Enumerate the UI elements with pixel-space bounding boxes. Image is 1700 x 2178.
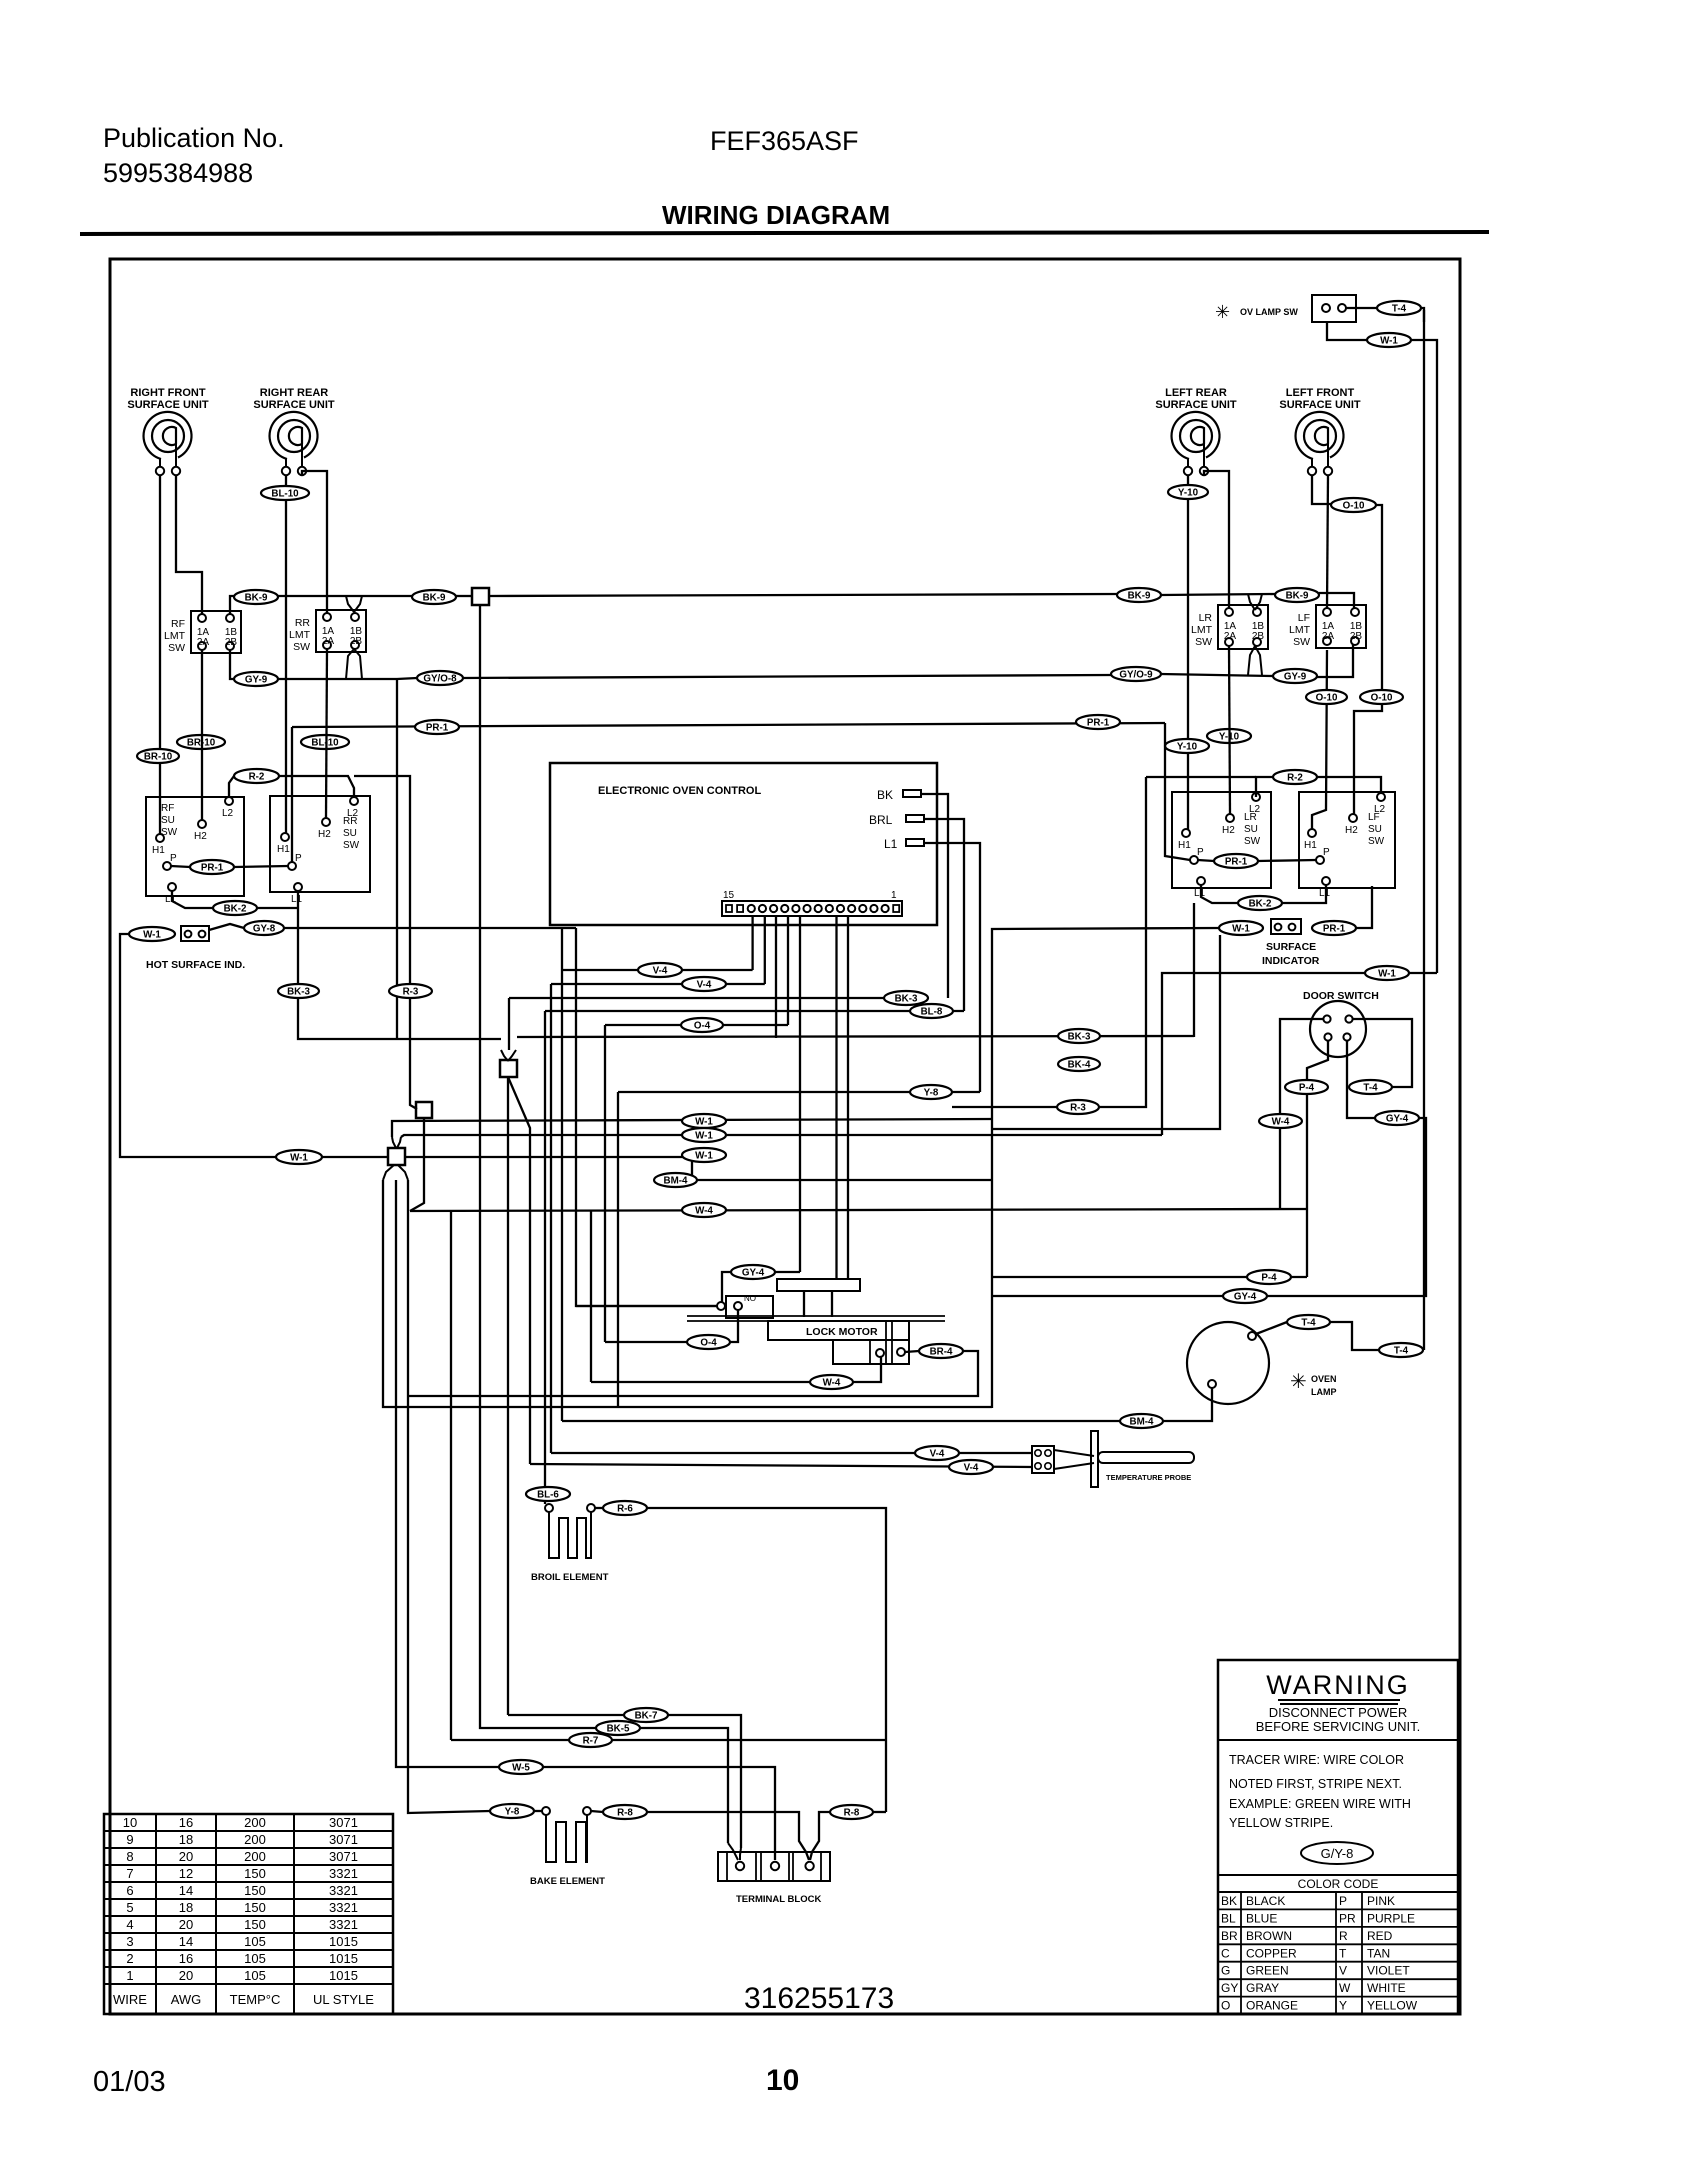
wire R-7 corner bbox=[612, 1739, 886, 1741]
svg-text:GY-8: GY-8 bbox=[253, 923, 276, 934]
wire V-4 probe line a bbox=[551, 1452, 1032, 1454]
label W-1 bbox=[682, 1148, 726, 1162]
svg-text:COLOR CODE: COLOR CODE bbox=[1298, 1877, 1379, 1891]
svg-text:316255173: 316255173 bbox=[744, 1982, 894, 2015]
svg-text:BROIL ELEMENT: BROIL ELEMENT bbox=[531, 1572, 609, 1583]
label W-4 bbox=[1259, 1114, 1302, 1128]
label BK-9 bbox=[1117, 588, 1161, 602]
label GY-8 bbox=[244, 921, 284, 935]
wire sq3 fork up left bbox=[392, 1137, 396, 1148]
wire leg A bbox=[383, 1180, 992, 1407]
wire RF coil right lead to RF LMT 1A bbox=[176, 475, 202, 614]
wire RF P to RR P bbox=[171, 866, 190, 867]
label GY-9 bbox=[234, 672, 278, 686]
wire RR L1 drop bbox=[297, 891, 299, 984]
svg-text:LMT: LMT bbox=[289, 629, 311, 641]
svg-text:8: 8 bbox=[126, 1849, 133, 1864]
svg-text:SU: SU bbox=[161, 815, 175, 826]
svg-text:RF: RF bbox=[161, 803, 174, 814]
svg-text:01/03: 01/03 bbox=[93, 2066, 166, 2098]
svg-text:W-1: W-1 bbox=[290, 1152, 308, 1163]
wire R-7 drop bbox=[450, 1210, 452, 1740]
svg-text:BLACK: BLACK bbox=[1246, 1894, 1285, 1908]
example oval G/Y-8 bbox=[1301, 1842, 1373, 1864]
wire BK-7 corner bbox=[668, 1715, 741, 1848]
wire BK-9 bus long bbox=[489, 594, 1117, 596]
svg-text:4: 4 bbox=[126, 1917, 133, 1932]
svg-text:GREEN: GREEN bbox=[1246, 1964, 1289, 1978]
wire LR LMT 2B fork left bbox=[1248, 646, 1255, 675]
right rear surface unit coil bbox=[270, 412, 318, 475]
label PR-1 bbox=[1312, 921, 1356, 935]
wire O-10 chain to LF H2 bbox=[1354, 505, 1382, 814]
label W-1 bbox=[1365, 966, 1409, 980]
svg-text:150: 150 bbox=[244, 1917, 266, 1932]
wire leg C Y-8 bbox=[408, 1180, 490, 1813]
svg-text:BK-3: BK-3 bbox=[287, 986, 310, 997]
wire RR LMT 1B fork right bbox=[354, 596, 362, 612]
label BM-4 bbox=[1120, 1414, 1163, 1428]
wire BK-3 door line bbox=[517, 1036, 1194, 1037]
svg-text:G/Y-8: G/Y-8 bbox=[1321, 1846, 1354, 1861]
svg-text:BK-9: BK-9 bbox=[1128, 590, 1151, 601]
svg-text:GY-4: GY-4 bbox=[1234, 1291, 1257, 1302]
wire LR LMT 1B fork right bbox=[1255, 594, 1262, 610]
wire W-1 mid west and 992 vertical bbox=[992, 928, 1219, 1408]
label GY-9 bbox=[1273, 669, 1317, 683]
svg-text:BM-4: BM-4 bbox=[664, 1175, 688, 1186]
junction square BK-9 bbox=[472, 588, 489, 605]
svg-text:R-3: R-3 bbox=[403, 986, 419, 997]
wire R-2 left riser bbox=[229, 776, 234, 797]
label Y-8 bbox=[910, 1085, 952, 1099]
svg-text:W-1: W-1 bbox=[1380, 335, 1398, 346]
svg-text:✳: ✳ bbox=[1290, 1371, 1307, 1393]
wire square1 fork left bbox=[501, 1050, 508, 1061]
wire strip wire 776 bbox=[775, 916, 777, 1038]
svg-text:Y-10: Y-10 bbox=[1177, 741, 1198, 752]
wire T-4 to vertical bbox=[1423, 1349, 1424, 1351]
svg-text:YELLOW: YELLOW bbox=[1367, 1999, 1418, 2013]
svg-text:2: 2 bbox=[126, 1951, 133, 1966]
junction square W-1 bbox=[388, 1148, 405, 1165]
wire R-7 line bbox=[451, 1739, 569, 1741]
svg-text:2B: 2B bbox=[225, 637, 238, 648]
svg-text:TRACER WIRE: WIRE COLOR: TRACER WIRE: WIRE COLOR bbox=[1229, 1753, 1404, 1767]
wire BK-2 to 298 riser bbox=[257, 907, 298, 909]
label BK-5 bbox=[596, 1721, 640, 1735]
svg-text:SURFACE UNIT: SURFACE UNIT bbox=[127, 399, 209, 411]
svg-text:105: 105 bbox=[244, 1951, 266, 1966]
label BR-10 bbox=[137, 749, 179, 763]
svg-text:BK-9: BK-9 bbox=[245, 592, 268, 603]
wire GY bus center bbox=[278, 678, 397, 680]
label GY-4 bbox=[1375, 1111, 1419, 1125]
wire left terminal fork r bbox=[740, 1848, 741, 1860]
svg-text:O-10: O-10 bbox=[1316, 692, 1338, 703]
wire LF coil right lead to LF LMT 1A bbox=[1327, 475, 1328, 608]
electronic oven control box bbox=[550, 763, 937, 925]
svg-text:LAMP: LAMP bbox=[1311, 1387, 1337, 1397]
svg-text:1: 1 bbox=[126, 1968, 133, 1983]
wire LR P to LF P b bbox=[1258, 860, 1316, 861]
svg-text:R-6: R-6 bbox=[617, 1503, 633, 1514]
wire P-4 line 1277 bbox=[992, 1276, 1307, 1278]
svg-text:BR-10: BR-10 bbox=[144, 751, 173, 762]
svg-text:3321: 3321 bbox=[329, 1917, 358, 1932]
svg-text:GY/O-9: GY/O-9 bbox=[1119, 669, 1153, 680]
wire RR LMT 2B fork right bbox=[354, 649, 362, 679]
label BL-6 bbox=[526, 1487, 570, 1501]
wire W-1 line b bbox=[401, 1135, 1162, 1137]
wire sq3 fork down left bbox=[383, 1165, 394, 1180]
label BR-4 bbox=[919, 1344, 963, 1358]
wire R-3 to R2 riser bbox=[1099, 777, 1146, 1107]
wire V-4 line a riser bbox=[561, 928, 563, 1421]
wire door BR drop bbox=[1347, 1041, 1375, 1118]
wire GY-O bus long bbox=[463, 675, 1111, 678]
svg-text:T-4: T-4 bbox=[1392, 303, 1407, 314]
svg-text:BRL: BRL bbox=[869, 813, 893, 827]
wire BK-9 bus center bbox=[278, 595, 412, 597]
svg-text:OV LAMP SW: OV LAMP SW bbox=[1240, 307, 1298, 317]
svg-text:7: 7 bbox=[126, 1866, 133, 1881]
wire PR-1 to RR P bbox=[234, 866, 288, 867]
wire motor to BR-4 bbox=[905, 1351, 919, 1352]
label BK-3 bbox=[1058, 1029, 1100, 1043]
label Y-10 bbox=[1165, 739, 1209, 753]
label O-10 bbox=[1360, 690, 1403, 704]
svg-text:H2: H2 bbox=[1222, 825, 1235, 836]
svg-text:OVEN: OVEN bbox=[1311, 1374, 1337, 1384]
wire BL-8 line bbox=[545, 1010, 964, 1012]
svg-text:V-4: V-4 bbox=[653, 965, 668, 976]
temperature probe connector bbox=[1032, 1446, 1054, 1473]
wire W-1 to junction3 bbox=[322, 1156, 388, 1158]
svg-text:BL-10: BL-10 bbox=[271, 488, 299, 499]
wire RR LMT 1B fork left bbox=[346, 596, 354, 612]
svg-text:2A: 2A bbox=[197, 637, 210, 648]
wire R-8a line bbox=[646, 1812, 809, 1860]
svg-text:RIGHT FRONT: RIGHT FRONT bbox=[130, 387, 205, 399]
svg-text:20: 20 bbox=[179, 1917, 193, 1932]
wire O-4 line bbox=[605, 1024, 788, 1026]
label GY/O-9 bbox=[1111, 667, 1161, 681]
svg-text:V-4: V-4 bbox=[964, 1462, 979, 1473]
svg-text:R-2: R-2 bbox=[1287, 772, 1303, 783]
bake element bbox=[542, 1807, 550, 1815]
svg-text:BL: BL bbox=[1221, 1911, 1236, 1925]
wire strip wire 753 bbox=[751, 916, 753, 970]
svg-text:LMT: LMT bbox=[1191, 624, 1213, 636]
wire V-4 probe line b bbox=[530, 1464, 1032, 1467]
wire LR P to LF P a bbox=[1198, 860, 1214, 861]
svg-text:V: V bbox=[1339, 1964, 1347, 1978]
wire BR-4 return bbox=[408, 1351, 978, 1396]
svg-text:SW: SW bbox=[168, 642, 185, 654]
svg-text:TEMP°C: TEMP°C bbox=[230, 1992, 281, 2007]
svg-text:W-1: W-1 bbox=[695, 1130, 713, 1141]
wire GY-O bus right bbox=[1161, 674, 1273, 676]
title underline rule bbox=[80, 232, 1489, 234]
svg-text:Y-10: Y-10 bbox=[1178, 487, 1199, 498]
svg-text:TAN: TAN bbox=[1367, 1946, 1390, 1960]
wire R-2 to RR L2 bbox=[279, 776, 354, 797]
svg-text:P: P bbox=[1323, 847, 1330, 858]
wire BRL pin wire bbox=[924, 819, 964, 1011]
label W-4 bbox=[682, 1203, 726, 1217]
label BK-9 bbox=[412, 590, 456, 604]
surface indicator bbox=[1271, 919, 1301, 934]
svg-text:GY-9: GY-9 bbox=[245, 674, 268, 685]
wire BK-9 to junction bbox=[456, 595, 472, 597]
svg-text:P-4: P-4 bbox=[1261, 1272, 1277, 1283]
wire BK-5 line bbox=[480, 605, 596, 1728]
svg-text:SW: SW bbox=[343, 840, 360, 851]
svg-text:BROWN: BROWN bbox=[1246, 1929, 1292, 1943]
svg-text:BR-4: BR-4 bbox=[930, 1346, 953, 1357]
svg-text:WARNING: WARNING bbox=[1266, 1670, 1410, 1700]
svg-text:PR-1: PR-1 bbox=[201, 862, 224, 873]
svg-text:W-4: W-4 bbox=[695, 1205, 713, 1216]
wire W-1 corner bbox=[1411, 340, 1437, 973]
label V-4 bbox=[949, 1460, 993, 1474]
oven lamp switch bbox=[1312, 295, 1356, 322]
wire BK pin wire bbox=[921, 794, 948, 998]
wire LR LMT 2B fork right bbox=[1255, 646, 1262, 675]
label V-4 bbox=[638, 963, 682, 977]
svg-text:SU: SU bbox=[1244, 824, 1258, 835]
label BM-4 bbox=[654, 1173, 697, 1187]
wire W-4 bus 1210 bbox=[410, 1209, 1307, 1211]
lock motor top plate bbox=[777, 1279, 860, 1291]
svg-text:O-4: O-4 bbox=[694, 1020, 711, 1031]
svg-text:BK-3: BK-3 bbox=[1068, 1031, 1091, 1042]
wire left terminal fork l bbox=[728, 1843, 738, 1860]
wire L1 pin wire bbox=[924, 843, 980, 1092]
wire door TL west bbox=[1280, 1019, 1323, 1210]
label W-1 bbox=[129, 927, 175, 941]
label R-2 bbox=[1273, 770, 1317, 784]
wire R-6 long bbox=[647, 1508, 886, 1812]
svg-text:BK-2: BK-2 bbox=[1249, 898, 1272, 909]
svg-text:5: 5 bbox=[126, 1900, 133, 1915]
svg-text:20: 20 bbox=[179, 1968, 193, 1983]
wire GY bus corner down bbox=[396, 679, 398, 1039]
svg-text:PINK: PINK bbox=[1367, 1894, 1395, 1908]
svg-text:UL STYLE: UL STYLE bbox=[313, 1992, 374, 2007]
svg-text:105: 105 bbox=[244, 1968, 266, 1983]
wire GY-4 east to strip wire bbox=[775, 1271, 800, 1273]
svg-text:SURFACE UNIT: SURFACE UNIT bbox=[1155, 399, 1237, 411]
svg-text:✳: ✳ bbox=[1215, 302, 1230, 322]
door switch bbox=[1310, 1001, 1366, 1057]
svg-text:L1: L1 bbox=[884, 837, 898, 851]
LF surface switch bbox=[1299, 792, 1395, 888]
svg-text:3321: 3321 bbox=[329, 1883, 358, 1898]
svg-text:12: 12 bbox=[179, 1866, 193, 1881]
svg-text:3321: 3321 bbox=[329, 1900, 358, 1915]
wire plate leg b bbox=[831, 1291, 833, 1317]
wire R-3 right line bbox=[952, 1106, 1057, 1108]
svg-text:3071: 3071 bbox=[329, 1832, 358, 1847]
svg-text:2A: 2A bbox=[1322, 631, 1335, 642]
svg-text:BK-4: BK-4 bbox=[1068, 1059, 1091, 1070]
lock motor body bbox=[768, 1321, 909, 1340]
svg-text:BK-5: BK-5 bbox=[607, 1723, 630, 1734]
wire BK-9 bus left bbox=[230, 596, 234, 614]
svg-text:ORANGE: ORANGE bbox=[1246, 1999, 1298, 2013]
svg-text:BK: BK bbox=[1221, 1894, 1237, 1908]
svg-text:VIOLET: VIOLET bbox=[1367, 1964, 1410, 1978]
wire strip wire 848 bbox=[847, 916, 849, 1279]
svg-text:PR-1: PR-1 bbox=[1087, 717, 1110, 728]
svg-text:W-4: W-4 bbox=[1272, 1116, 1290, 1127]
svg-text:16: 16 bbox=[179, 1951, 193, 1966]
svg-text:2B: 2B bbox=[1252, 631, 1265, 642]
label BR-10 bbox=[177, 735, 225, 749]
svg-text:15: 15 bbox=[723, 890, 735, 901]
label O-10 bbox=[1306, 690, 1347, 704]
wire R-8 from bake bbox=[591, 1811, 603, 1812]
svg-text:BK-7: BK-7 bbox=[635, 1710, 658, 1721]
label GY-4 bbox=[1223, 1289, 1267, 1303]
wire W-1 line a bbox=[392, 1119, 992, 1137]
wire V-4 line b bbox=[551, 983, 765, 985]
wire LR L1 to BK-2 right bbox=[1201, 885, 1238, 903]
svg-text:W-1: W-1 bbox=[143, 929, 161, 940]
wire leg B W-5 bbox=[396, 1180, 499, 1767]
terminal block bbox=[718, 1852, 830, 1881]
svg-text:SURFACE UNIT: SURFACE UNIT bbox=[253, 399, 335, 411]
junction square R-3 bbox=[416, 1102, 432, 1118]
svg-text:BL-6: BL-6 bbox=[537, 1489, 559, 1500]
RR limit switch bbox=[316, 610, 366, 652]
svg-text:20: 20 bbox=[179, 1849, 193, 1864]
svg-text:SURFACE UNIT: SURFACE UNIT bbox=[1279, 399, 1361, 411]
wire Y-8 line bbox=[618, 1091, 980, 1093]
svg-text:LR: LR bbox=[1199, 612, 1213, 624]
label W-1 bbox=[1367, 333, 1411, 347]
wire W-4 bus drop 591 bbox=[590, 1210, 592, 1382]
svg-text:LR: LR bbox=[1244, 812, 1257, 823]
wire O-4 west link bbox=[605, 1341, 687, 1343]
wire ovsw to T-4 bbox=[1346, 307, 1377, 309]
label R-6 bbox=[603, 1501, 647, 1515]
wire Y-8 drop 618 bbox=[617, 1092, 619, 1406]
svg-text:SW: SW bbox=[1293, 636, 1310, 648]
broil element bbox=[545, 1504, 553, 1512]
wire sq2 to bus bbox=[410, 1118, 424, 1211]
svg-text:H2: H2 bbox=[1345, 825, 1358, 836]
label BK-3 bbox=[278, 984, 319, 998]
svg-text:14: 14 bbox=[179, 1934, 193, 1949]
svg-text:WHITE: WHITE bbox=[1367, 1981, 1406, 1995]
svg-text:105: 105 bbox=[244, 1934, 266, 1949]
wire LF LMT 2A to H1 bbox=[1312, 650, 1327, 829]
label R-3 bbox=[1057, 1100, 1099, 1114]
svg-text:COPPER: COPPER bbox=[1246, 1946, 1297, 1960]
svg-text:LMT: LMT bbox=[1289, 624, 1311, 636]
svg-text:GY-9: GY-9 bbox=[1284, 671, 1307, 682]
wire W-4 to motor bbox=[853, 1357, 881, 1382]
color code table bbox=[1218, 1875, 1458, 1892]
svg-text:L1: L1 bbox=[1319, 888, 1331, 899]
wire ovsw W-1 drop bbox=[1327, 322, 1367, 340]
label BK-4 floating bbox=[1058, 1057, 1100, 1071]
svg-text:W-1: W-1 bbox=[1232, 923, 1250, 934]
wire R-2 to R-3 drop bbox=[354, 776, 410, 984]
wire GY-4 to switch bbox=[722, 1272, 731, 1302]
svg-text:W-1: W-1 bbox=[695, 1150, 713, 1161]
EOC terminal strip bbox=[722, 901, 902, 916]
wire W-1 right vertical bbox=[1162, 973, 1365, 1135]
wire square1 fork right bbox=[508, 1050, 516, 1061]
svg-text:BR: BR bbox=[1221, 1929, 1238, 1943]
wire Y-8 to bake bbox=[534, 1810, 542, 1812]
svg-text:SW: SW bbox=[1195, 636, 1212, 648]
label GY/O-8 bbox=[417, 671, 463, 685]
svg-text:3: 3 bbox=[126, 1934, 133, 1949]
svg-text:14: 14 bbox=[179, 1883, 193, 1898]
wire GY-O-8 link bbox=[397, 678, 417, 679]
svg-text:AWG: AWG bbox=[171, 1992, 202, 2007]
LR surface switch bbox=[1172, 792, 1271, 888]
label BK-3 bbox=[884, 991, 928, 1005]
label T-4 bbox=[1287, 1315, 1330, 1329]
svg-text:EXAMPLE: GREEN WIRE WITH: EXAMPLE: GREEN WIRE WITH bbox=[1229, 1797, 1411, 1811]
wire W-1 to ov lamp sw bbox=[1409, 972, 1437, 974]
svg-text:H1: H1 bbox=[277, 844, 290, 855]
left front surface unit coil bbox=[1296, 412, 1344, 475]
wire LR LMT 2A to H2 bbox=[1229, 646, 1230, 814]
lock switch bbox=[717, 1296, 773, 1318]
label O-10 bbox=[1331, 498, 1376, 512]
lock motor terminals bbox=[876, 1349, 884, 1357]
svg-text:ELECTRONIC OVEN CONTROL: ELECTRONIC OVEN CONTROL bbox=[598, 785, 761, 797]
wire T-4 vertical from ov lamp sw bbox=[1423, 310, 1425, 1350]
label W-5 bbox=[499, 1760, 543, 1774]
svg-text:V-4: V-4 bbox=[930, 1448, 945, 1459]
label Y-10 bbox=[1207, 729, 1251, 743]
wire W-4 lock line bbox=[591, 1381, 810, 1383]
svg-text:INDICATOR: INDICATOR bbox=[1262, 955, 1320, 967]
label BK-2 bbox=[213, 901, 257, 915]
wire PR right drop bbox=[1165, 723, 1190, 860]
svg-text:FEF365ASF: FEF365ASF bbox=[710, 126, 859, 156]
wire P-4 drop bbox=[1306, 1094, 1308, 1277]
wire V-4 line a bbox=[562, 969, 753, 971]
wire RR LMT 2A to H2 bbox=[326, 649, 327, 818]
svg-text:W-1: W-1 bbox=[1378, 968, 1396, 979]
svg-text:SU: SU bbox=[343, 828, 357, 839]
svg-text:H1: H1 bbox=[152, 845, 165, 856]
svg-text:2A: 2A bbox=[1224, 631, 1237, 642]
svg-text:WIRE: WIRE bbox=[113, 1992, 147, 2007]
svg-text:6: 6 bbox=[126, 1883, 133, 1898]
wire BK-2 right to LF L1 bbox=[1282, 885, 1326, 903]
wire door TR east bbox=[1353, 1019, 1412, 1087]
svg-text:C: C bbox=[1221, 1946, 1230, 1960]
svg-text:L1: L1 bbox=[291, 894, 303, 905]
label T-4 bbox=[1379, 1343, 1423, 1357]
label BK-2 bbox=[1238, 896, 1282, 910]
label O-4 bbox=[681, 1018, 723, 1032]
hot surface indicator bbox=[181, 926, 209, 941]
svg-text:V-4: V-4 bbox=[697, 979, 712, 990]
svg-text:150: 150 bbox=[244, 1866, 266, 1881]
label W-4 bbox=[810, 1375, 853, 1389]
